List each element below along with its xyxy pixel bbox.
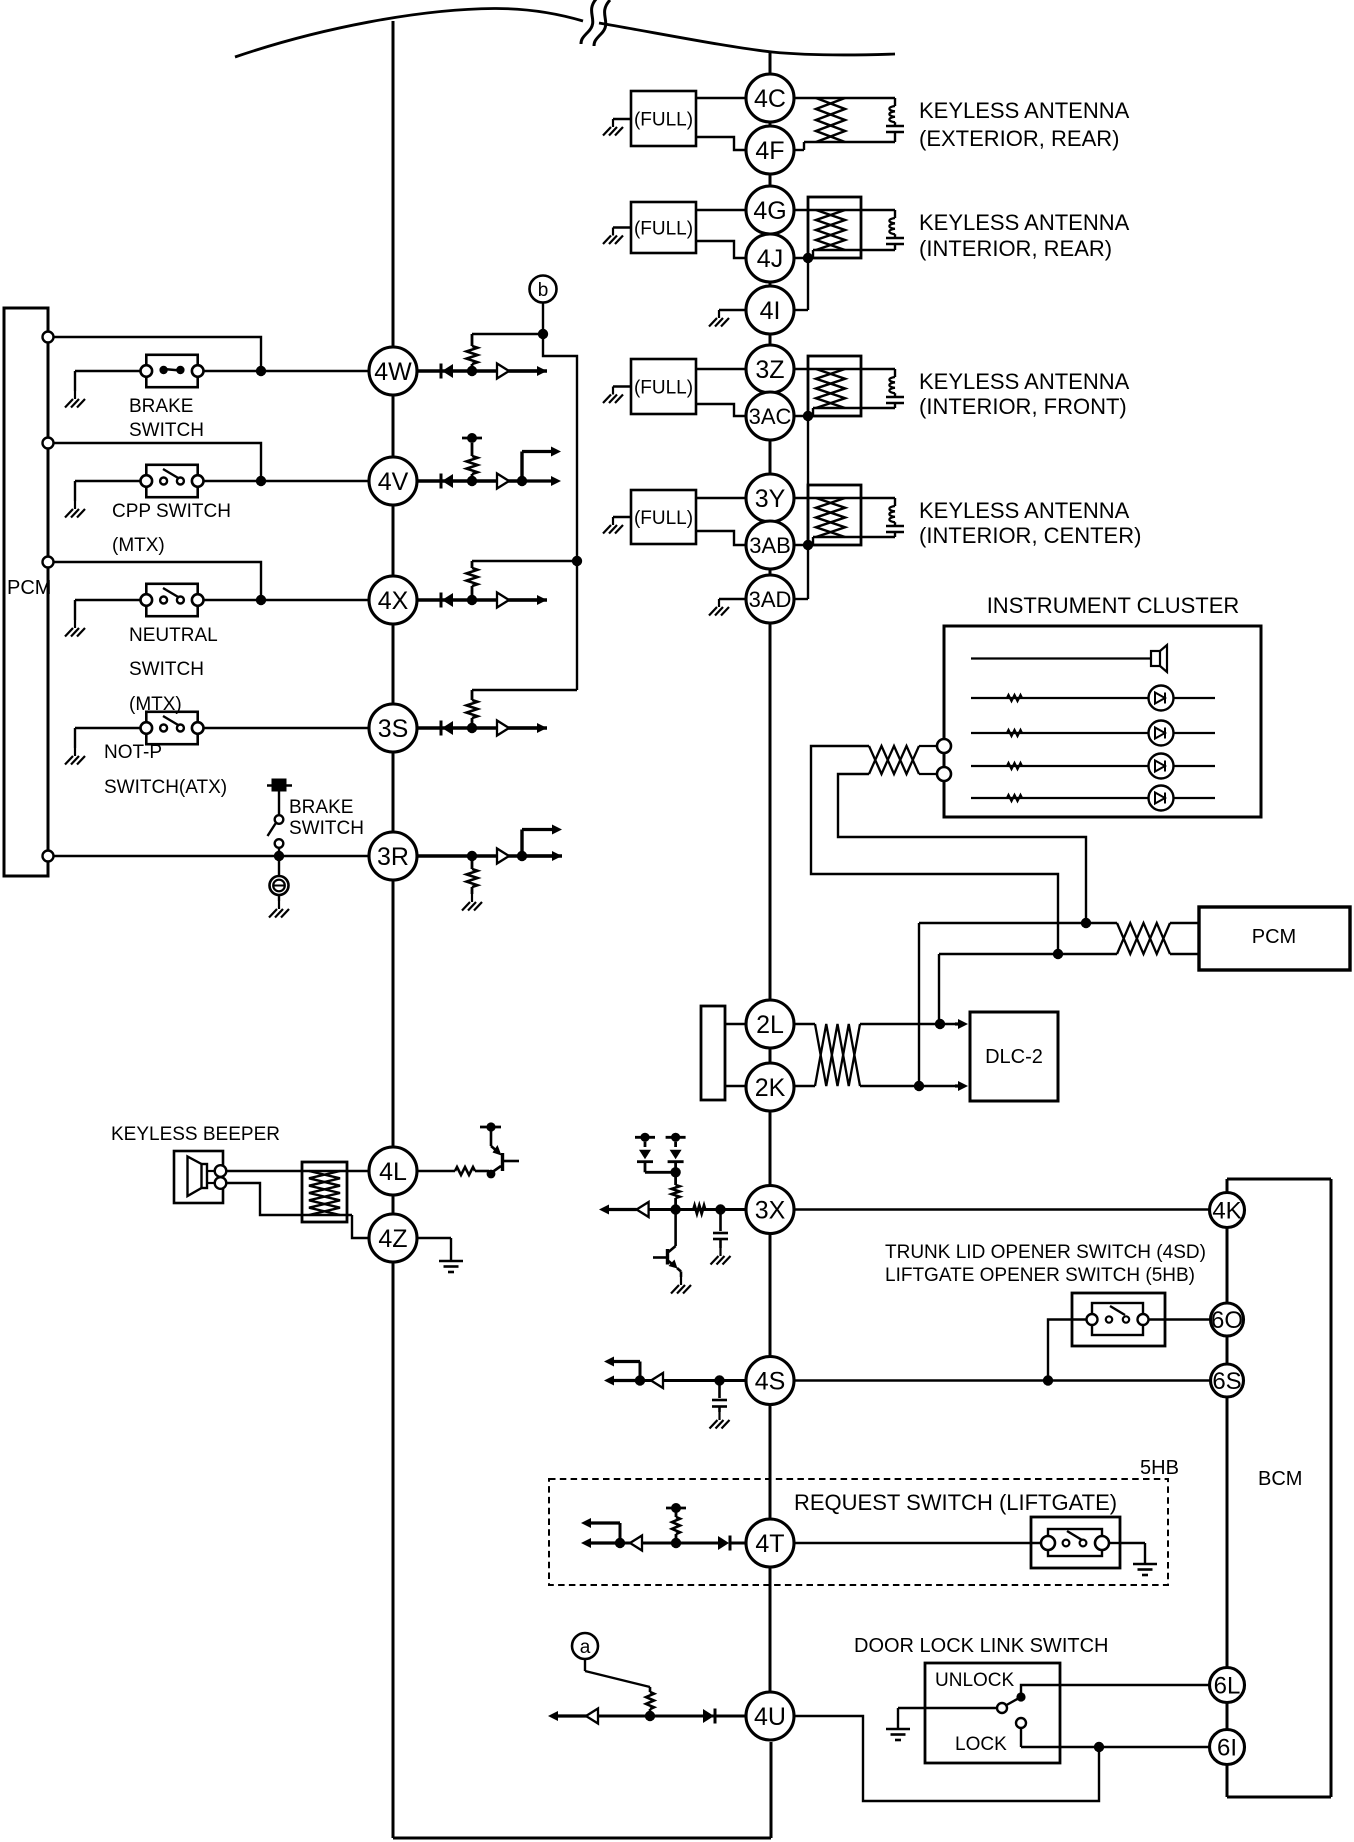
svg-text:TRUNK LID OPENER SWITCH (4SD): TRUNK LID OPENER SWITCH (4SD) xyxy=(885,1242,1206,1263)
svg-text:(MTX): (MTX) xyxy=(112,535,165,556)
svg-text:SWITCH(ATX): SWITCH(ATX) xyxy=(104,777,227,798)
svg-text:4F: 4F xyxy=(755,137,784,165)
svg-text:(FULL): (FULL) xyxy=(634,110,693,131)
svg-text:CPP SWITCH: CPP SWITCH xyxy=(112,501,231,522)
svg-text:(FULL): (FULL) xyxy=(634,508,693,529)
svg-text:(INTERIOR, REAR): (INTERIOR, REAR) xyxy=(919,236,1112,261)
svg-text:6O: 6O xyxy=(1211,1307,1243,1334)
svg-text:3AD: 3AD xyxy=(749,587,792,612)
svg-text:NOT-P: NOT-P xyxy=(104,742,162,763)
svg-text:6I: 6I xyxy=(1217,1735,1237,1762)
svg-text:LIFTGATE OPENER SWITCH (5HB): LIFTGATE OPENER SWITCH (5HB) xyxy=(885,1265,1195,1286)
svg-text:6S: 6S xyxy=(1212,1368,1241,1395)
svg-text:3Z: 3Z xyxy=(755,356,784,384)
svg-text:DOOR LOCK LINK SWITCH: DOOR LOCK LINK SWITCH xyxy=(854,1635,1108,1657)
svg-text:4C: 4C xyxy=(754,85,786,113)
svg-text:4V: 4V xyxy=(378,468,409,496)
svg-text:NEUTRAL: NEUTRAL xyxy=(129,625,218,646)
svg-text:PCM: PCM xyxy=(1252,926,1296,948)
svg-text:(FULL): (FULL) xyxy=(634,219,693,240)
svg-text:3AB: 3AB xyxy=(749,533,791,558)
svg-text:KEYLESS ANTENNA: KEYLESS ANTENNA xyxy=(919,498,1130,523)
svg-text:KEYLESS ANTENNA: KEYLESS ANTENNA xyxy=(919,369,1130,394)
svg-text:BRAKE: BRAKE xyxy=(129,396,193,417)
svg-text:KEYLESS ANTENNA: KEYLESS ANTENNA xyxy=(919,98,1130,123)
svg-text:(MTX): (MTX) xyxy=(129,694,182,715)
svg-text:KEYLESS BEEPER: KEYLESS BEEPER xyxy=(111,1124,280,1145)
svg-text:(EXTERIOR, REAR): (EXTERIOR, REAR) xyxy=(919,126,1119,151)
svg-text:a: a xyxy=(580,1637,591,1658)
svg-text:4U: 4U xyxy=(754,1703,786,1731)
svg-text:4W: 4W xyxy=(374,358,412,386)
svg-text:3S: 3S xyxy=(378,715,409,743)
svg-text:3X: 3X xyxy=(755,1197,786,1225)
svg-text:PCM: PCM xyxy=(7,577,51,599)
svg-text:4K: 4K xyxy=(1212,1198,1241,1225)
svg-text:4I: 4I xyxy=(760,297,781,325)
svg-text:BRAKE: BRAKE xyxy=(289,797,353,818)
svg-text:4Z: 4Z xyxy=(378,1225,407,1253)
svg-text:SWITCH: SWITCH xyxy=(289,818,364,839)
svg-text:b: b xyxy=(538,280,549,301)
svg-text:4X: 4X xyxy=(378,587,409,615)
svg-text:2K: 2K xyxy=(755,1074,786,1102)
svg-text:4L: 4L xyxy=(379,1158,407,1186)
svg-text:SWITCH: SWITCH xyxy=(129,420,204,441)
svg-text:LOCK: LOCK xyxy=(955,1734,1007,1755)
svg-text:INSTRUMENT CLUSTER: INSTRUMENT CLUSTER xyxy=(987,593,1240,618)
svg-text:2L: 2L xyxy=(756,1011,784,1039)
svg-text:3R: 3R xyxy=(377,843,409,871)
svg-text:6L: 6L xyxy=(1214,1673,1241,1700)
svg-text:(INTERIOR, FRONT): (INTERIOR, FRONT) xyxy=(919,394,1127,419)
svg-text:REQUEST SWITCH (LIFTGATE): REQUEST SWITCH (LIFTGATE) xyxy=(794,1490,1117,1515)
svg-text:5HB: 5HB xyxy=(1140,1457,1179,1479)
svg-text:BCM: BCM xyxy=(1258,1468,1302,1490)
svg-text:(INTERIOR, CENTER): (INTERIOR, CENTER) xyxy=(919,523,1141,548)
svg-text:4G: 4G xyxy=(753,197,786,225)
svg-text:4S: 4S xyxy=(755,1368,786,1396)
svg-text:3AC: 3AC xyxy=(749,404,792,429)
svg-text:DLC-2: DLC-2 xyxy=(985,1046,1043,1068)
svg-text:KEYLESS ANTENNA: KEYLESS ANTENNA xyxy=(919,210,1130,235)
svg-text:(FULL): (FULL) xyxy=(634,378,693,399)
svg-text:3Y: 3Y xyxy=(755,485,786,513)
svg-text:4J: 4J xyxy=(757,245,783,273)
svg-text:4T: 4T xyxy=(755,1530,784,1558)
svg-text:UNLOCK: UNLOCK xyxy=(935,1670,1015,1691)
svg-text:SWITCH: SWITCH xyxy=(129,659,204,680)
